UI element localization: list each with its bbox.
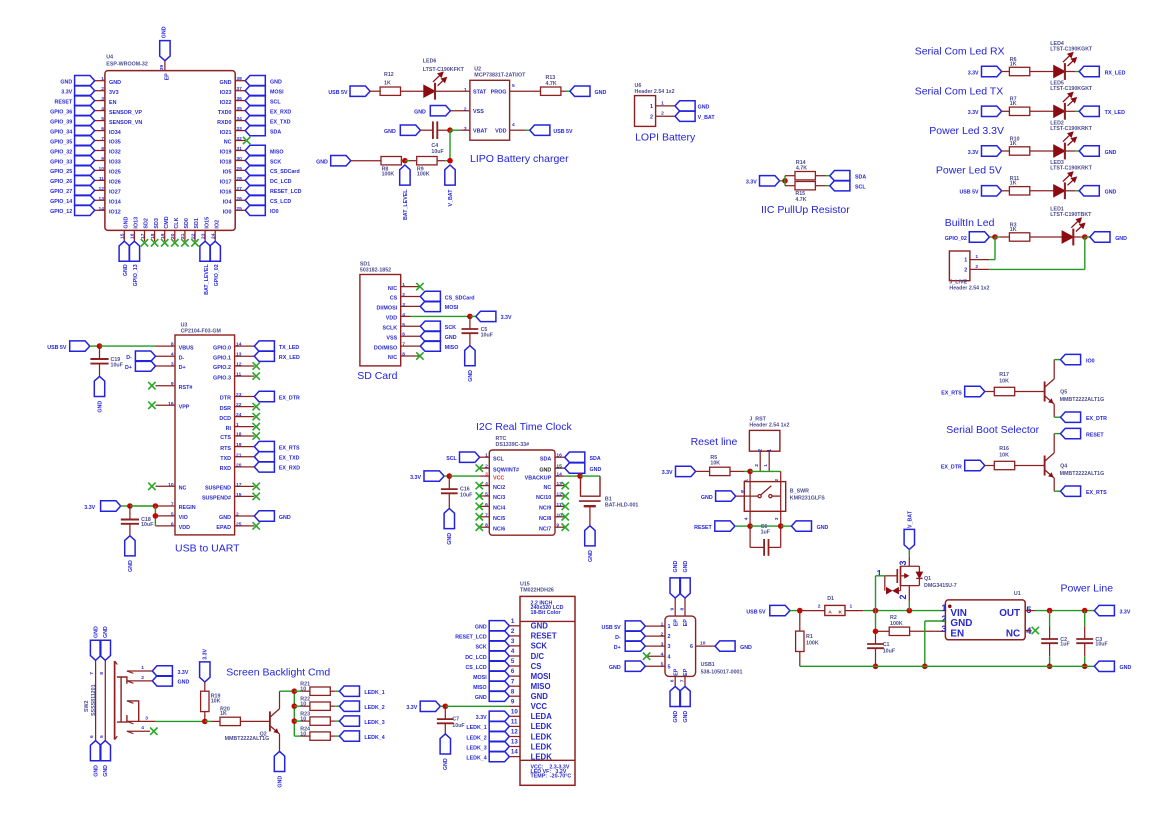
U3 right pin 13 GPIO.1 wire xyxy=(235,355,255,357)
svg-text:DS1339C-33#: DS1339C-33# xyxy=(496,442,530,448)
resistor R12 1K xyxy=(380,87,400,95)
svg-text:7: 7 xyxy=(485,512,488,518)
svg-text:USB1: USB1 xyxy=(701,662,715,668)
junction V_BAT node xyxy=(447,158,453,164)
no-connect X U1 NC pin xyxy=(1025,630,1031,632)
net flag GND U3 pin 2 xyxy=(254,511,274,521)
svg-text:CS: CS xyxy=(390,296,398,302)
net flag GND U15 pin 8 xyxy=(489,691,509,701)
svg-text:1K: 1K xyxy=(1010,141,1017,147)
svg-text:1K: 1K xyxy=(384,81,391,87)
U4 left pin 5 SENSOR_VN wire xyxy=(95,120,105,122)
SD1 pin 1 N/C wire xyxy=(401,286,421,288)
wire VBACKUP to junction xyxy=(565,475,580,477)
svg-text:1: 1 xyxy=(668,624,671,630)
svg-text:EX_RTS: EX_RTS xyxy=(941,390,962,396)
wire VBAT junction down to R9 node xyxy=(449,130,451,161)
svg-text:7: 7 xyxy=(679,679,685,682)
U3 right pin 20 RXD wire xyxy=(235,466,255,468)
svg-text:RESET: RESET xyxy=(1086,432,1104,438)
svg-text:IO34: IO34 xyxy=(109,130,121,136)
net flag RX_LED U3 pin 13 xyxy=(254,351,274,361)
svg-text:3: 3 xyxy=(774,517,780,520)
resistor R22 10 xyxy=(310,702,330,710)
wire flag to resistor xyxy=(1002,150,1010,152)
svg-text:IO2: IO2 xyxy=(214,220,220,229)
svg-text:TEMP: -20-70°C: TEMP: -20-70°C xyxy=(531,774,572,780)
no-connect X SW2 pin4 xyxy=(150,728,157,735)
net flag 3.3V U15 pin 10 xyxy=(489,711,509,721)
wire R11 to LED xyxy=(1030,190,1054,192)
U4 left pin 1 GND wire xyxy=(95,80,105,82)
svg-text:GND: GND xyxy=(178,680,190,686)
svg-text:1: 1 xyxy=(941,603,946,613)
no-connect X U3 pin 18 xyxy=(253,432,260,439)
wire R17 to base of Q5 xyxy=(1015,391,1045,393)
net flag EX_DTR xyxy=(965,460,985,470)
U4 left pin 11 IO26 wire xyxy=(95,179,105,181)
U3 right pin 23 DTR wire xyxy=(235,396,255,398)
capacitor C5 10uF xyxy=(469,316,471,329)
no-connect X pin 22 xyxy=(191,239,198,246)
svg-text:NC: NC xyxy=(224,140,232,146)
svg-text:2: 2 xyxy=(818,603,821,609)
U3 left pin 3 D+ wire xyxy=(156,365,176,367)
net flag GND switch pin5 xyxy=(716,491,736,501)
svg-text:1uF: 1uF xyxy=(1060,641,1070,647)
svg-text:D+: D+ xyxy=(125,365,132,371)
svg-text:REGIN: REGIN xyxy=(179,505,196,511)
svg-text:LTST-C190TBKT: LTST-C190TBKT xyxy=(1050,212,1092,218)
svg-text:NC/7: NC/7 xyxy=(539,526,551,532)
junction right BuiltIn node xyxy=(1082,234,1088,240)
svg-text:23: 23 xyxy=(200,233,206,239)
svg-text:EP: EP xyxy=(165,73,171,81)
SW2 pin 2 wire xyxy=(127,680,152,682)
svg-text:1: 1 xyxy=(877,568,882,578)
svg-text:3.3V: 3.3V xyxy=(61,90,72,96)
wire 3.3V to junction xyxy=(780,180,785,182)
svg-text:10: 10 xyxy=(300,717,306,723)
svg-text:PROG: PROG xyxy=(491,89,507,95)
wire U1 GND pin to rail xyxy=(925,620,946,622)
svg-text:1K: 1K xyxy=(1010,101,1017,107)
U4 right pin 31 IO19 wire xyxy=(235,150,245,152)
wire RESET to junction xyxy=(735,525,750,527)
svg-text:10K: 10K xyxy=(999,452,1009,458)
svg-text:2: 2 xyxy=(511,628,515,635)
svg-text:1: 1 xyxy=(767,449,773,452)
svg-text:28: 28 xyxy=(236,176,242,182)
svg-text:4: 4 xyxy=(402,312,405,318)
wire GND to switch xyxy=(736,495,758,497)
net flag 3.3V at RTC VCC xyxy=(424,471,444,481)
net flag 3.3V at REGIN xyxy=(101,501,121,511)
svg-text:CS_LCD: CS_LCD xyxy=(270,199,291,205)
svg-text:18: 18 xyxy=(236,432,242,438)
svg-text:19: 19 xyxy=(236,442,242,448)
junction R22 node xyxy=(292,703,298,709)
svg-text:GPIO_34: GPIO_34 xyxy=(50,129,72,135)
U4 right pin 29 IO5 wire xyxy=(235,169,245,171)
net flag TX_LED xyxy=(1079,106,1099,116)
svg-text:GPIO_26: GPIO_26 xyxy=(50,179,72,185)
svg-text:EP: EP xyxy=(683,619,689,627)
capacitor C7 10UF xyxy=(444,706,446,719)
svg-text:SDA: SDA xyxy=(270,129,281,135)
svg-text:D-: D- xyxy=(179,355,185,361)
wire junction to R9 xyxy=(405,160,409,162)
svg-text:37: 37 xyxy=(236,86,242,92)
IC RTC DS1339C-33# body xyxy=(489,450,555,535)
svg-text:17: 17 xyxy=(236,482,242,488)
svg-text:GND: GND xyxy=(683,561,689,573)
svg-text:NC/6: NC/6 xyxy=(493,526,505,532)
svg-text:D+: D+ xyxy=(614,645,621,651)
no-connect X U3 pin 17 xyxy=(253,483,260,490)
svg-text:100K: 100K xyxy=(417,171,430,177)
svg-text:NC/9: NC/9 xyxy=(539,506,551,512)
no-connect X RTC pin 8 xyxy=(476,524,483,531)
capacitor C19 10uF xyxy=(99,346,101,359)
svg-text:9: 9 xyxy=(101,156,104,162)
svg-text:Serial Com Led TX: Serial Com Led TX xyxy=(915,85,1004,97)
svg-text:NC: NC xyxy=(179,486,187,492)
wire junction to resistor xyxy=(995,236,1000,238)
junction left BuiltIn node xyxy=(992,234,998,240)
svg-text:GND: GND xyxy=(109,80,121,86)
svg-text:3.3V: 3.3V xyxy=(178,670,189,676)
svg-text:8: 8 xyxy=(101,146,104,152)
svg-text:10uF: 10uF xyxy=(460,493,473,499)
wire C16 to GND xyxy=(448,493,450,508)
wire 3.3V to R5 xyxy=(696,470,710,472)
svg-text:16: 16 xyxy=(168,401,174,407)
net flag D- at U3 xyxy=(135,351,155,361)
svg-text:3: 3 xyxy=(511,638,515,645)
svg-text:GPIO_39: GPIO_39 xyxy=(50,119,72,125)
svg-text:GND: GND xyxy=(103,626,109,638)
switch SW2 slider bracket xyxy=(117,677,127,722)
wire battery to GND xyxy=(589,506,591,526)
svg-text:3.3V: 3.3V xyxy=(203,648,209,659)
svg-text:IO5: IO5 xyxy=(223,170,232,176)
svg-text:GPIO.1: GPIO.1 xyxy=(213,355,231,361)
svg-text:5: 5 xyxy=(661,662,664,668)
svg-text:8: 8 xyxy=(511,688,515,695)
svg-text:15: 15 xyxy=(556,464,562,470)
svg-text:GND: GND xyxy=(609,665,621,671)
wire emitter of Q5 down xyxy=(1053,404,1055,417)
svg-text:EX_RXD: EX_RXD xyxy=(270,109,291,115)
ground flag GND SW2 bottom left xyxy=(90,741,100,761)
wire to VIN junctions xyxy=(863,610,945,612)
U3 right pin 14 GPIO.0 wire xyxy=(235,345,255,347)
svg-text:100K: 100K xyxy=(382,171,395,177)
svg-text:R16: R16 xyxy=(999,446,1009,452)
IC U2 MCP73831T-2ATI/OT body xyxy=(470,80,510,140)
SW2 pin 1 wire xyxy=(127,670,152,672)
RTC right pin 9 NC/7 wire xyxy=(555,526,565,528)
svg-text:3.3V: 3.3V xyxy=(968,110,979,116)
wire collector of Q5 up xyxy=(1053,360,1055,379)
svg-text:2: 2 xyxy=(101,86,104,92)
RTC left pin 7 NC/5 wire xyxy=(480,516,490,518)
RTC left pin 4 NC/2 wire xyxy=(480,485,490,487)
no-connect X SD1 pin 1 xyxy=(416,283,423,290)
svg-text:Serial Com Led RX: Serial Com Led RX xyxy=(915,46,1005,58)
net flag 3.3V xyxy=(982,106,1002,116)
wire GND to R8 xyxy=(351,160,382,162)
U2 pin 2 VSS wire xyxy=(450,110,470,112)
USB1 pin 3 wire xyxy=(645,645,665,647)
net flag GND below C5 xyxy=(465,346,475,366)
svg-text:10: 10 xyxy=(168,482,174,488)
ground flag GND USB1 bottom pin 7 xyxy=(680,686,690,706)
header J_RST Header 2.54 1x2 body xyxy=(749,430,780,451)
net flag GPIO_27 pin 12 xyxy=(75,185,95,195)
junction R23 node xyxy=(292,718,298,724)
wire C1 to rail xyxy=(875,648,877,666)
svg-text:SSSS811201: SSSS811201 xyxy=(91,684,97,716)
svg-text:2: 2 xyxy=(668,634,671,640)
wire LED to right flag xyxy=(1065,150,1076,152)
svg-text:SCL: SCL xyxy=(855,185,866,191)
svg-text:IO13: IO13 xyxy=(134,217,140,229)
svg-text:Screen Backlight Cmd: Screen Backlight Cmd xyxy=(226,666,330,678)
wire 3.3V to junction xyxy=(440,705,445,707)
U3 right pin 2 GND wire xyxy=(235,515,255,517)
capacitor C4 10UF xyxy=(432,121,434,139)
svg-text:12: 12 xyxy=(511,729,518,736)
svg-text:6: 6 xyxy=(402,332,405,338)
svg-text:10K: 10K xyxy=(999,378,1009,384)
switch contacts xyxy=(758,495,761,498)
net flag V_BAT at U6 pin2 xyxy=(675,111,695,121)
no-connect X RTC pin 5 xyxy=(476,492,483,499)
svg-text:RXD0: RXD0 xyxy=(217,120,231,126)
svg-text:MMBT2222ALT1G: MMBT2222ALT1G xyxy=(225,736,270,742)
net flag SDA xyxy=(830,171,850,181)
resistor R20 1K xyxy=(220,717,240,725)
svg-text:GPIO_12: GPIO_12 xyxy=(50,209,72,215)
svg-text:GND: GND xyxy=(539,467,551,473)
svg-text:10uF: 10uF xyxy=(452,723,465,729)
wire USB5V to junction xyxy=(790,610,800,612)
U15 pin 11 LEDK wire xyxy=(509,725,520,727)
svg-text:Header 2.54 1x2: Header 2.54 1x2 xyxy=(749,422,789,428)
RTC right pin 15 GND wire xyxy=(555,467,565,469)
net flag GPIO_12 pin 14 xyxy=(75,205,95,215)
net flag GPIO_34 pin 6 xyxy=(75,125,95,135)
svg-text:13: 13 xyxy=(236,352,242,358)
svg-text:LTST-C190KGKT: LTST-C190KGKT xyxy=(1050,46,1093,52)
svg-text:NC/5: NC/5 xyxy=(493,516,505,522)
net flag SCL pin 36 xyxy=(245,95,265,105)
no-connect X RTC pin 9 xyxy=(562,524,569,531)
svg-text:10K: 10K xyxy=(710,460,720,466)
svg-text:GPIO_36: GPIO_36 xyxy=(50,109,72,115)
switch SW2 SSSS811201 vertical pins xyxy=(95,660,97,740)
junction gate node xyxy=(873,608,879,614)
switch pin1 vertical wire xyxy=(749,471,751,526)
junction VBUS node xyxy=(97,343,103,349)
svg-text:32: 32 xyxy=(236,136,242,142)
svg-text:3.3V: 3.3V xyxy=(84,505,95,511)
svg-text:V_BAT: V_BAT xyxy=(907,510,913,528)
header U6 Header 2.54 1x2 body xyxy=(635,96,656,127)
no-connect X pin 18 xyxy=(151,239,158,246)
svg-text:3.3V: 3.3V xyxy=(746,180,757,186)
svg-text:RI: RI xyxy=(226,426,232,432)
svg-text:GND: GND xyxy=(277,776,283,788)
svg-text:GND: GND xyxy=(698,105,710,111)
no-connect X RTC pin 2 xyxy=(476,464,483,471)
net flag GND SW2 pin2 xyxy=(152,676,172,686)
net flag LEDK_4 U15 pin 14 xyxy=(489,751,509,761)
svg-text:SCL: SCL xyxy=(446,456,457,462)
net flag 3.3V power out xyxy=(1094,605,1114,615)
svg-text:RESET_LCD: RESET_LCD xyxy=(455,635,487,641)
svg-text:CMD: CMD xyxy=(164,216,170,228)
transistor Q5 MMBT2222ALT1G xyxy=(1044,382,1046,402)
svg-text:N/C: N/C xyxy=(388,286,397,292)
svg-text:38: 38 xyxy=(236,76,242,82)
svg-text:SD1: SD1 xyxy=(194,218,200,229)
svg-text:13: 13 xyxy=(556,481,562,487)
net flag GPIO_35 pin 7 xyxy=(75,135,95,145)
U3 left pin 7 REGIN wire xyxy=(156,505,176,507)
wire flag to R17 xyxy=(985,391,995,393)
svg-text:TXD: TXD xyxy=(220,456,231,462)
svg-text:EX_TXD: EX_TXD xyxy=(279,456,300,462)
wire flag to left junction xyxy=(989,236,995,238)
junction RTC VCC node xyxy=(447,473,453,479)
resistor R21 10 xyxy=(310,687,330,695)
svg-text:1: 1 xyxy=(101,76,104,82)
svg-text:IO22: IO22 xyxy=(220,100,232,106)
transistor Q2 MMBT2222ALT1G xyxy=(269,711,271,731)
net flag 3.3V SW2 pin1 xyxy=(152,666,172,676)
wire LED to right flag xyxy=(1065,190,1076,192)
svg-text:SCL: SCL xyxy=(270,99,281,105)
U15 pin 4 D/C wire xyxy=(509,655,520,657)
svg-text:DI/MOSI: DI/MOSI xyxy=(377,306,398,312)
ground flag GND SW2 top right xyxy=(100,640,110,660)
resistor R23 10 xyxy=(310,717,330,725)
net flag CS_LCD pin 26 xyxy=(245,195,265,205)
svg-text:5: 5 xyxy=(1026,605,1031,615)
no-connect X U3 pin 10 xyxy=(148,483,155,490)
net flag GND below Q2 xyxy=(274,751,284,771)
U4 bottom pin 24 IO2 wire xyxy=(214,230,216,241)
resistor R9 100K xyxy=(417,157,437,165)
svg-text:D-: D- xyxy=(615,635,621,641)
svg-text:34: 34 xyxy=(236,116,242,122)
svg-text:3V3: 3V3 xyxy=(109,90,119,96)
svg-text:NC: NC xyxy=(1006,628,1020,639)
wire LED6 to U2 STAT xyxy=(435,90,470,92)
wire bus to R23 xyxy=(294,720,301,722)
net flag GND pin 1 xyxy=(75,76,95,86)
svg-text:MISO: MISO xyxy=(270,149,284,155)
svg-text:10uF: 10uF xyxy=(1095,641,1108,647)
svg-text:GND: GND xyxy=(701,495,713,501)
junction LCD VCC node xyxy=(443,704,449,710)
net flag 3.3V xyxy=(982,66,1002,76)
svg-text:GND: GND xyxy=(740,645,752,651)
wire R16 to base of Q4 xyxy=(1015,465,1045,467)
net flag SCK SD1 pin 5 xyxy=(420,321,440,331)
svg-text:4: 4 xyxy=(485,481,488,487)
svg-text:10: 10 xyxy=(556,512,562,518)
wire LED to right flag xyxy=(1065,110,1076,112)
wire junction to VCC pin xyxy=(449,475,479,477)
svg-text:4: 4 xyxy=(101,106,104,112)
svg-text:SCK: SCK xyxy=(476,645,487,651)
SD1 pin 7 DO/MISO wire xyxy=(401,345,421,347)
svg-text:GND: GND xyxy=(384,129,396,135)
svg-text:9: 9 xyxy=(511,698,515,705)
U4 right pin 37 IO23 wire xyxy=(235,90,245,92)
svg-text:100K: 100K xyxy=(806,641,819,647)
svg-text:EX_RXD: EX_RXD xyxy=(279,466,300,472)
svg-text:IO27: IO27 xyxy=(109,190,121,196)
net flag RESET xyxy=(1061,428,1081,438)
U4 bottom pin 15 GND wire xyxy=(123,230,125,241)
wire R8 to BAT_LEVEL junction xyxy=(400,160,403,162)
svg-text:IO12: IO12 xyxy=(109,210,121,216)
junction C3 rail node xyxy=(1082,664,1088,670)
ground rail wire xyxy=(800,665,1095,667)
svg-text:11: 11 xyxy=(556,502,561,508)
svg-text:MISO: MISO xyxy=(473,685,487,691)
wire R10 to LED xyxy=(1030,150,1054,152)
svg-text:IO23: IO23 xyxy=(220,90,232,96)
U15 pin 5 CS wire xyxy=(509,665,520,667)
wire gate to VIN wire xyxy=(876,575,885,577)
wire junction to flag xyxy=(1085,236,1090,238)
svg-text:GND: GND xyxy=(103,765,109,777)
svg-text:RXD: RXD xyxy=(220,466,231,472)
svg-text:3: 3 xyxy=(402,302,405,308)
wire flag to resistor xyxy=(1002,110,1010,112)
svg-text:TXD0: TXD0 xyxy=(218,110,232,116)
net flag CS_LCD U15 pin 5 xyxy=(489,661,509,671)
svg-text:7: 7 xyxy=(511,678,515,685)
svg-text:RESET: RESET xyxy=(55,99,73,105)
svg-text:3.3V: 3.3V xyxy=(1120,609,1131,615)
connector SD1 503182-1852 body xyxy=(360,275,401,366)
svg-text:V_BAT: V_BAT xyxy=(698,115,716,121)
svg-text:1: 1 xyxy=(464,87,467,93)
svg-text:GPIO_33: GPIO_33 xyxy=(50,159,72,165)
svg-text:LEDK: LEDK xyxy=(531,722,553,731)
svg-text:IO32: IO32 xyxy=(109,150,121,156)
svg-text:2: 2 xyxy=(236,512,239,518)
net flag CS_SDCard pin 29 xyxy=(245,165,265,175)
net flag SDA pin 33 xyxy=(245,125,265,135)
no-connect X U3 pin 11 xyxy=(253,372,260,379)
svg-text:25: 25 xyxy=(236,206,242,212)
svg-text:IO33: IO33 xyxy=(109,160,121,166)
USB1 EP pin 6 bottom wire xyxy=(674,676,676,686)
svg-text:LEDK_1: LEDK_1 xyxy=(364,690,384,696)
net flag GND pin 38 xyxy=(245,76,265,86)
ground flag GND USB1 top pin 8 xyxy=(680,578,690,598)
wire C19 to GND xyxy=(99,364,101,377)
svg-text:10K: 10K xyxy=(211,699,221,705)
